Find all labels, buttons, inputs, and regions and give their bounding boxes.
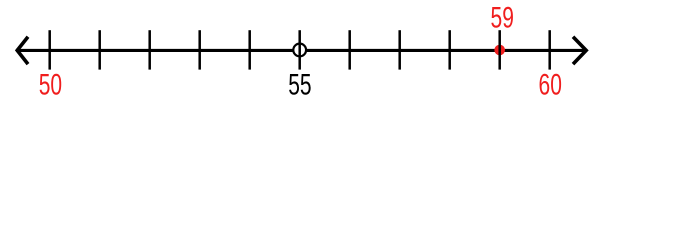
svg-text:55: 55 <box>288 69 311 100</box>
svg-text:50: 50 <box>39 69 62 100</box>
svg-text:60: 60 <box>539 69 562 100</box>
svg-text:59: 59 <box>491 2 514 34</box>
